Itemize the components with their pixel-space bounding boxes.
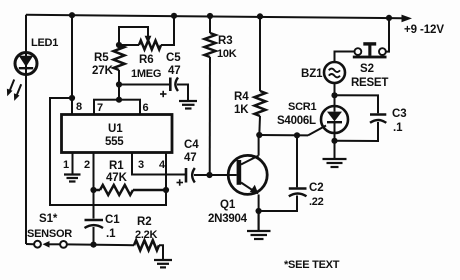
pot loop R5/R6 top	[116, 16, 174, 48]
svg-text:2N3904: 2N3904	[208, 213, 248, 225]
wire top supply rail	[26, 15, 402, 18]
wiper arrow into R6	[145, 36, 152, 44]
svg-text:C1: C1	[105, 214, 120, 226]
svg-text:555: 555	[105, 136, 124, 148]
svg-text:S4006L: S4006L	[277, 115, 316, 127]
resistor R2 2.2K	[134, 216, 163, 259]
svg-text:LED1: LED1	[31, 37, 58, 49]
LED1	[15, 37, 58, 76]
resistor R3 10K	[205, 16, 237, 178]
wire left rail LED branch	[25, 15, 27, 244]
svg-text:SCR1: SCR1	[288, 101, 316, 113]
capacitor C1 .1	[85, 190, 121, 244]
svg-text:1: 1	[63, 159, 69, 171]
svg-text:47: 47	[168, 65, 181, 77]
pin 7/6 box on IC top	[76, 100, 149, 115]
node junction top rail R4	[257, 13, 263, 19]
plus mark C5	[160, 93, 167, 95]
svg-text:2.2K: 2.2K	[135, 229, 158, 241]
node junction top rail R6	[171, 13, 177, 19]
svg-text:S1*: S1*	[39, 213, 58, 225]
svg-text:.22: .22	[309, 196, 324, 208]
node R5 top	[116, 42, 122, 48]
node junction top rail R3	[207, 13, 213, 19]
svg-text:*SEE TEXT: *SEE TEXT	[284, 259, 340, 271]
resistor R1 47K	[94, 160, 167, 195]
svg-text:Q1: Q1	[220, 199, 236, 211]
pin 4 stub	[159, 153, 169, 194]
svg-text:BZ1: BZ1	[301, 68, 323, 80]
wire R6 left to R5 top	[119, 44, 139, 46]
pin 2 stub	[84, 153, 97, 194]
svg-text:R3: R3	[218, 35, 233, 47]
svg-text:1K: 1K	[234, 104, 249, 116]
op-amp U1 555 IC box	[62, 115, 173, 153]
wire to C5	[119, 84, 169, 86]
capacitor C3 .1	[335, 95, 407, 141]
wire pin8 branch from rail	[50, 15, 166, 205]
svg-text:+9 -12V: +9 -12V	[404, 24, 444, 36]
svg-text:R2: R2	[137, 216, 152, 228]
wire R5 bottom to pins 6/7	[116, 70, 169, 103]
svg-text:7: 7	[97, 102, 103, 114]
resistor R5 27K	[92, 45, 125, 77]
wire pin8 to pin4 link left	[50, 98, 166, 205]
LED light arrows	[7, 80, 21, 101]
transistor Q1 2N3904	[208, 135, 267, 225]
ground R2	[154, 260, 172, 267]
ground SCR1	[323, 159, 347, 167]
svg-text:R1: R1	[109, 160, 124, 172]
svg-text:6: 6	[143, 102, 149, 114]
svg-text:C4: C4	[184, 139, 199, 151]
svg-text:R5: R5	[94, 52, 109, 64]
thyristor SCR1 S4006L	[277, 95, 348, 158]
node junction top rail S2	[386, 15, 392, 21]
ground C5	[179, 101, 197, 109]
resistor R4 1K	[234, 16, 266, 138]
svg-text:10K: 10K	[217, 48, 237, 60]
switch S2 reset pushbutton	[351, 18, 389, 89]
svg-text:.1: .1	[106, 228, 116, 240]
svg-text:U1: U1	[108, 123, 123, 135]
node pin8 / pin4 tie	[69, 95, 75, 101]
svg-text:S2: S2	[360, 63, 374, 75]
svg-text:.1: .1	[393, 122, 403, 134]
svg-text:1MEG: 1MEG	[131, 68, 161, 80]
svg-text:4: 4	[159, 159, 166, 171]
svg-text:27K: 27K	[92, 65, 114, 77]
capacitor C4 47	[177, 139, 210, 186]
svg-text:8: 8	[76, 101, 82, 113]
capacitor C2 .22	[259, 135, 324, 211]
svg-text:47: 47	[184, 152, 197, 164]
svg-text:R4: R4	[234, 91, 249, 103]
switch S1 sensor	[26, 213, 134, 248]
svg-text:C3: C3	[392, 108, 407, 120]
buzzer BZ1	[301, 52, 354, 99]
svg-text:R6: R6	[139, 54, 154, 66]
svg-text:3: 3	[138, 159, 144, 171]
svg-text:2: 2	[84, 159, 90, 171]
svg-text:SENSOR: SENSOR	[27, 228, 72, 240]
svg-text:47K: 47K	[106, 172, 128, 184]
svg-text:C5: C5	[166, 52, 181, 64]
pin 1 stub and ground	[63, 153, 81, 182]
wire gate line R4 to SCR	[259, 126, 326, 139]
capacitor C5 47	[160, 52, 188, 100]
svg-text:C2: C2	[309, 182, 324, 194]
svg-text:RESET: RESET	[351, 77, 388, 89]
node junction top rail pin8	[69, 12, 75, 18]
ground Q1 emitter	[247, 211, 271, 239]
pin 3 stub to C4	[132, 153, 185, 175]
resistor R6 1MEG	[131, 41, 161, 81]
wire rail to R6 right	[161, 16, 174, 45]
plus mark C4	[177, 182, 184, 184]
supply arrow +9-12V	[402, 15, 445, 36]
